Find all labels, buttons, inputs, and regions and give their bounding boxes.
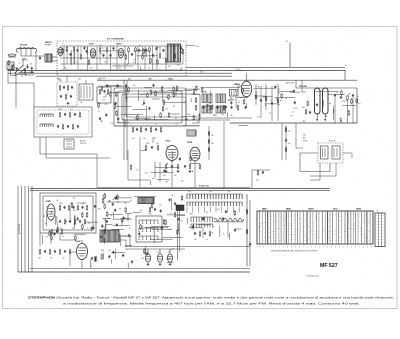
svg-text:UY42: UY42	[76, 240, 82, 243]
capacitor (left of combs)	[174, 202, 176, 205]
svg-text:82: 82	[148, 68, 150, 70]
tube V6 35W4	[190, 147, 200, 162]
capacitor C8	[109, 54, 111, 57]
svg-text:a modulazione di frequenza. Me: a modulazione di frequenza. Media freque…	[63, 301, 360, 305]
value label (tuner interior extra)	[102, 47, 105, 49]
svg-text:1n: 1n	[292, 111, 294, 113]
capacitor C20	[334, 94, 336, 97]
svg-text:1M: 1M	[265, 237, 267, 239]
value label (mid band extra)	[101, 121, 103, 123]
switch drop 1	[40, 137, 97, 154]
resistor (detector extra)	[351, 98, 353, 104]
resistor (converter col extra)	[281, 93, 283, 99]
svg-text:220: 220	[364, 222, 366, 224]
FM tuner dashed enclosure	[57, 41, 186, 76]
IFT T4 lower	[216, 106, 221, 113]
capacitor (power bottom extra)	[112, 251, 114, 254]
resistor R11	[159, 46, 161, 59]
svg-text:220: 220	[294, 234, 296, 236]
wire (audio mid extra)	[155, 167, 180, 169]
svg-text:6.8: 6.8	[136, 170, 138, 172]
svg-text:220: 220	[279, 240, 281, 242]
capacitor (comb area extra)	[225, 210, 227, 213]
wire (tuner interior extra)	[134, 49, 150, 51]
voltage table figures	[258, 213, 371, 242]
junction dot (converter col extra)	[286, 98, 287, 99]
svg-text:STERNPHON (Società Ital. Radio: STERNPHON (Società Ital. Radio - Torino)…	[28, 296, 394, 300]
resistor (audio mid extra)	[130, 164, 132, 170]
resistor (left of combs)	[165, 220, 167, 226]
IFT T4 upper	[216, 94, 221, 103]
wire switch to coil	[23, 59, 26, 66]
wire (tuner interior extra)	[74, 48, 76, 64]
capacitor C22	[352, 94, 354, 97]
svg-text:2n2: 2n2	[140, 210, 143, 212]
value label (tuner interior extra)	[177, 65, 181, 67]
value label (audio mid extra)	[166, 147, 170, 149]
capacitor (left of combs)	[178, 218, 180, 221]
svg-text:1M: 1M	[313, 222, 315, 224]
wire (tuner interior extra)	[145, 48, 147, 57]
wire (bottom left extra)	[102, 217, 111, 219]
capacitor (det cluster)	[115, 196, 117, 199]
det drop 2	[324, 114, 326, 121]
coupling box	[187, 130, 196, 136]
wire (det cluster)	[119, 235, 132, 237]
wire (converter col extra)	[278, 88, 280, 94]
AM rod antenna	[8, 54, 16, 57]
capacitor C5	[76, 49, 78, 52]
big signal loop 1	[114, 88, 186, 126]
resistor (left column extra)	[8, 60, 10, 66]
wire (IF mesh)	[192, 122, 200, 124]
value label (audio mid extra)	[145, 173, 148, 175]
value label (mid band extra)	[231, 99, 234, 101]
wire (left of combs)	[145, 226, 168, 228]
capacitor (left of combs)	[138, 232, 140, 235]
svg-text:1M: 1M	[274, 237, 276, 239]
detector loop coil 1	[315, 88, 321, 114]
switch drop 2	[46, 137, 110, 158]
value label (converter col extra)	[266, 88, 268, 90]
mid row labels	[132, 138, 156, 140]
svg-text:.01: .01	[130, 201, 132, 203]
svg-text:220: 220	[30, 64, 33, 66]
resistor (tuner interior extra)	[174, 53, 176, 59]
label 5DT.RB	[299, 86, 307, 88]
junction dot (bottom left extra)	[66, 221, 67, 222]
resistor (mid band extra)	[168, 112, 170, 118]
junction dot (mid band extra)	[238, 102, 239, 103]
wire (IF mesh)	[140, 93, 146, 95]
value label (IF mesh)	[183, 101, 187, 103]
svg-text:1n: 1n	[101, 227, 103, 229]
value label (left of combs)	[159, 204, 162, 206]
date note	[307, 274, 320, 277]
value label (audio mid extra)	[171, 157, 174, 159]
junction dot (converter col extra)	[265, 105, 266, 106]
mid wire A	[114, 125, 200, 127]
wire (bottom left extra)	[85, 221, 98, 223]
wire (audio mid extra)	[141, 150, 147, 152]
value label (left column extra)	[15, 67, 18, 69]
svg-text:35C5: 35C5	[333, 209, 338, 211]
svg-text:47p: 47p	[15, 67, 18, 69]
bus junction dots	[35, 70, 345, 81]
value label (mid band extra)	[228, 100, 230, 102]
dashed stub	[186, 46, 199, 48]
wire (left column extra)	[16, 73, 26, 75]
grounds	[147, 263, 172, 266]
resistor (detector extra)	[341, 90, 343, 96]
value label (detector extra)	[342, 101, 347, 103]
junction dot (mid band extra)	[113, 102, 114, 103]
junction dot (IF mesh)	[197, 121, 198, 122]
svg-text:220: 220	[330, 240, 332, 242]
wire (detector extra)	[322, 100, 324, 107]
svg-text:220: 220	[315, 217, 317, 219]
svg-text:1M: 1M	[349, 228, 351, 230]
wire (left column extra)	[25, 74, 34, 76]
svg-text:47p: 47p	[133, 85, 136, 87]
wire (mid band extra)	[210, 91, 212, 96]
svg-text:47p: 47p	[98, 103, 101, 105]
svg-text:220: 220	[258, 225, 260, 227]
V4 risers	[256, 84, 278, 121]
wire (tuner interior extra)	[71, 50, 73, 65]
wire (det cluster)	[119, 237, 121, 246]
wire (mid band extra)	[135, 118, 151, 120]
resistor (det cluster)	[104, 229, 106, 235]
svg-text:10n: 10n	[108, 200, 111, 202]
resistor (IF mesh)	[162, 106, 164, 112]
resistor (mid band extra)	[211, 104, 213, 110]
svg-text:1M: 1M	[268, 237, 270, 239]
tuner bottom bold labels	[57, 77, 174, 80]
wire (power bottom extra)	[127, 263, 129, 268]
switch parts 1	[59, 112, 81, 118]
antenna taps	[21, 49, 31, 57]
resistor (tuner interior extra)	[181, 48, 183, 54]
capacitor (bottom left extra)	[116, 223, 118, 226]
svg-text:1M: 1M	[363, 220, 365, 222]
value label (tuner interior extra)	[178, 58, 181, 60]
comb row 2	[191, 217, 213, 222]
wire balun to tuner	[52, 57, 57, 61]
value label (det cluster)	[117, 202, 120, 204]
table caption	[271, 249, 318, 252]
junction dot (bottom left extra)	[87, 227, 88, 228]
svg-text:47p: 47p	[103, 97, 106, 99]
wire (bottom left extra)	[55, 215, 57, 224]
V5 cathode parts	[165, 164, 201, 173]
resistor R6	[106, 47, 108, 64]
AM-FM switch enclosure	[34, 107, 92, 137]
wire (bottom left extra)	[103, 238, 105, 244]
wire (bottom left extra)	[76, 202, 86, 204]
value label (bottom left extra)	[73, 210, 77, 212]
comb row 2b	[191, 224, 213, 228]
wire (det cluster)	[113, 218, 133, 220]
wire (mid band extra)	[235, 96, 248, 98]
wire (mid band extra)	[163, 102, 186, 104]
tube V8 rect	[77, 244, 88, 261]
value label (comb area extra)	[190, 214, 193, 216]
svg-text:467: 467	[168, 66, 171, 68]
fono lower wires	[310, 163, 336, 180]
det bottom bus	[230, 122, 357, 124]
comb group labels	[188, 191, 231, 193]
det out label	[358, 103, 361, 105]
svg-text:.01: .01	[170, 213, 172, 215]
value label (bottom left extra)	[46, 236, 49, 238]
svg-text:120: 120	[108, 250, 111, 252]
value label (mid band extra)	[111, 123, 115, 125]
svg-text:47p: 47p	[64, 68, 67, 70]
value label (IF mesh)	[103, 97, 106, 99]
svg-text:10n: 10n	[143, 138, 146, 140]
junction dot (det cluster)	[129, 227, 130, 228]
big signal loop 2	[118, 91, 182, 123]
junction dot (audio mid extra)	[196, 155, 197, 156]
tuner junction dots	[66, 69, 160, 70]
V1 sublabel	[45, 43, 52, 46]
capacitor (power bottom extra)	[131, 260, 133, 263]
resistor (bottom left extra)	[75, 235, 77, 241]
resistor (tuner interior extra)	[150, 58, 152, 64]
switch S1 ANT	[15, 65, 24, 73]
capacitor (IF mesh)	[105, 113, 107, 116]
svg-text:12BH7: 12BH7	[116, 44, 122, 46]
svg-text:5p: 5p	[19, 62, 21, 64]
wire (power bottom extra)	[102, 253, 104, 260]
value label (bottom left extra)	[45, 223, 48, 225]
value label (det cluster)	[101, 227, 103, 229]
resistor loop row	[214, 218, 244, 222]
wire (power bottom extra)	[145, 246, 147, 256]
svg-text:220: 220	[124, 202, 127, 204]
resistor (bottom left extra)	[125, 207, 127, 213]
trimmer C9	[112, 47, 114, 50]
resistor (left of combs)	[174, 212, 176, 218]
capacitor (mid band extra)	[206, 104, 208, 107]
capacitor (converter col extra)	[293, 90, 295, 93]
resistor (left of combs)	[181, 195, 183, 201]
wire (mid band extra)	[154, 115, 156, 119]
table headers	[262, 208, 362, 211]
svg-text:220: 220	[295, 239, 297, 241]
junction dot (comb area extra)	[212, 232, 213, 233]
value label (power bottom extra)	[141, 258, 145, 260]
wire (IF mesh)	[191, 93, 200, 95]
mid right parts	[305, 109, 311, 115]
resistor (mid band extra)	[155, 91, 157, 97]
svg-text:47p: 47p	[73, 198, 76, 200]
resistor (mid band extra)	[242, 88, 244, 94]
value label (audio mid extra)	[181, 180, 184, 182]
cluster ground	[67, 102, 70, 105]
relay box label	[58, 80, 63, 82]
resistor R12	[182, 49, 184, 64]
label FI bold	[199, 185, 210, 188]
svg-text:6.8: 6.8	[169, 229, 171, 231]
resistor (tuner interior extra)	[143, 48, 145, 54]
tube V5 label	[166, 141, 172, 143]
svg-text:.01: .01	[269, 112, 271, 114]
bus wire 1	[8, 70, 345, 72]
svg-text:6K8: 6K8	[325, 116, 328, 118]
wire (audio mid extra)	[151, 171, 174, 173]
wire bus to det	[296, 80, 306, 92]
rect filament riser	[178, 211, 180, 261]
junction dot (converter col extra)	[258, 86, 259, 87]
value label (audio mid extra)	[136, 170, 138, 172]
wire (power bottom extra)	[90, 260, 92, 269]
wire (mid band extra)	[171, 113, 180, 115]
capacitor (detector extra)	[316, 103, 318, 106]
pickup label	[329, 141, 335, 143]
mid riser 2	[126, 80, 128, 160]
wire (IF mesh)	[126, 89, 128, 102]
svg-text:ALIMENTAZ.: ALIMENTAZ.	[18, 223, 21, 234]
svg-text:10n: 10n	[108, 218, 111, 220]
value label (IF mesh)	[165, 109, 168, 111]
svg-text:47p: 47p	[117, 202, 120, 204]
resistor (tuner interior extra)	[88, 59, 90, 65]
wire (mid band extra)	[111, 91, 124, 93]
wire (left column extra)	[20, 71, 34, 73]
mini table	[375, 213, 385, 247]
capacitor (left column extra)	[16, 67, 18, 70]
resistor R8	[135, 47, 137, 64]
long bus lower 1	[30, 188, 330, 190]
value label (power bottom extra)	[168, 258, 170, 260]
svg-text:470: 470	[132, 138, 135, 140]
value label (mid band extra)	[98, 103, 101, 105]
resistor R5	[99, 47, 101, 64]
capacitor (left of combs)	[160, 209, 162, 212]
svg-text:12AT7: 12AT7	[89, 43, 94, 46]
capacitor C2	[26, 65, 28, 68]
tube V1 6BQ7A	[58, 48, 63, 57]
value label (bottom left extra)	[46, 206, 50, 208]
capacitor (bottom left extra)	[106, 220, 108, 223]
wire (audio mid extra)	[172, 151, 174, 161]
bus drop at 345	[344, 71, 346, 81]
svg-text:2n: 2n	[133, 62, 135, 64]
svg-text:FI 467 kc/s: FI 467 kc/s	[199, 185, 210, 188]
resistor (bottom left extra)	[71, 202, 73, 208]
wire (comb area extra)	[235, 228, 241, 230]
capacitor (left of combs)	[169, 198, 171, 201]
wire (left of combs)	[171, 198, 173, 210]
svg-text:5p: 5p	[223, 234, 225, 236]
svg-text:220: 220	[275, 220, 277, 222]
wire (bottom left extra)	[69, 207, 71, 223]
junction dot (left of combs)	[172, 195, 173, 196]
mid wire B	[122, 119, 230, 121]
wire (detector extra)	[328, 94, 345, 96]
svg-text:120: 120	[345, 100, 348, 102]
junction dot (converter col extra)	[278, 104, 279, 105]
resistor (left of combs)	[163, 219, 165, 225]
svg-text:2n2: 2n2	[159, 204, 162, 206]
wire (tuner interior extra)	[140, 67, 142, 71]
wire (IF mesh)	[169, 90, 193, 92]
svg-text:220: 220	[364, 214, 366, 216]
svg-text:6K8: 6K8	[190, 214, 193, 216]
wire (left of combs)	[153, 232, 155, 243]
rotated label	[18, 223, 21, 234]
capacitor (det cluster)	[123, 216, 125, 219]
wire (IF mesh)	[145, 106, 147, 120]
AM-FM inner dashed	[37, 110, 89, 134]
det drop 3	[340, 118, 342, 123]
value label (bottom left extra)	[104, 220, 106, 222]
nested box A	[40, 193, 96, 233]
electrolytic C23	[356, 98, 358, 104]
fono loop wire 1	[300, 153, 330, 172]
hang row labels	[198, 115, 233, 117]
resistor (IF mesh)	[176, 86, 178, 92]
value label (det cluster)	[110, 215, 112, 217]
svg-text:220: 220	[344, 231, 346, 233]
resistor (power bottom extra)	[94, 256, 96, 262]
V5 V6 drops	[155, 161, 195, 188]
wire (mid band extra)	[124, 84, 126, 99]
wire (mid band extra)	[190, 98, 192, 102]
V7 parts r2	[59, 219, 86, 225]
bottom rail 1	[18, 272, 250, 273]
svg-text:6.3V: 6.3V	[78, 78, 81, 80]
svg-text:1n: 1n	[110, 215, 112, 217]
resistor (IF mesh)	[160, 112, 162, 118]
speaker wires	[119, 236, 130, 247]
wire (IF mesh)	[152, 98, 160, 100]
svg-text:FONO: FONO	[303, 141, 308, 143]
value label (comb area extra)	[206, 212, 209, 214]
svg-text:220: 220	[360, 228, 362, 230]
osc coil label	[230, 98, 235, 102]
tube V2 12AT7	[90, 49, 95, 59]
tuner tall verticals	[64, 46, 166, 70]
wire (bottom left extra)	[121, 222, 123, 226]
V8 plate wire	[81, 240, 83, 244]
junction dot (tuner interior extra)	[100, 53, 101, 54]
left mid parts	[99, 89, 109, 95]
capacitor (det cluster)	[121, 219, 123, 222]
value label (detector extra)	[345, 100, 348, 102]
wire (bottom left extra)	[41, 235, 43, 244]
IFT T3 upper	[202, 94, 207, 103]
tube V5 35C5	[166, 146, 178, 162]
value label (det cluster)	[124, 202, 127, 204]
IFT T3 lower	[202, 106, 207, 113]
switch wafer box	[136, 216, 162, 242]
capacitor (audio mid extra)	[163, 169, 165, 172]
svg-text:1n: 1n	[119, 65, 121, 67]
value label (power bottom extra)	[166, 259, 171, 261]
svg-text:1M: 1M	[264, 214, 266, 216]
resistor (bottom left extra)	[106, 211, 108, 217]
junction dot (mid band extra)	[235, 90, 236, 91]
svg-text:6.8: 6.8	[228, 100, 230, 102]
resistor (tuner interior extra)	[125, 54, 127, 60]
wire (converter col extra)	[275, 97, 296, 99]
wire (bottom left extra)	[74, 233, 86, 235]
hanging comp row right	[195, 105, 246, 111]
right riser pair	[282, 123, 286, 160]
